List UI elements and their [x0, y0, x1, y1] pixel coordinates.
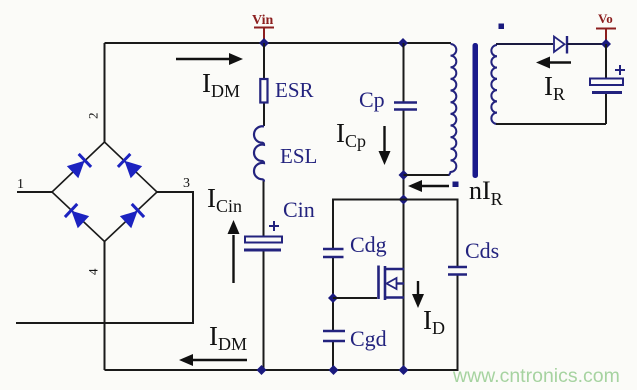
wire terminal 1 lead: [17, 191, 52, 193]
label nIR with arrow: [408, 176, 503, 209]
label Cgd: [350, 326, 387, 351]
pin label 3: [183, 176, 190, 191]
wire gate lead: [333, 297, 377, 299]
resistor ESR: [260, 79, 267, 103]
node dot gate junction: [328, 293, 338, 303]
wire output return (cap bottom to secondary bottom): [496, 123, 606, 125]
svg-text:Cds: Cds: [465, 238, 499, 263]
pin label 2 (rotated): [86, 113, 101, 120]
label ESR: [275, 78, 314, 102]
polarity dot secondary winding: [499, 24, 505, 30]
label IDM (top) with arrow: [176, 53, 243, 101]
svg-text:ESR: ESR: [275, 78, 314, 102]
node dot at top rail Cp branch: [398, 38, 408, 48]
svg-text:www.cntronics.com: www.cntronics.com: [452, 365, 620, 387]
diode D3 (bridge upper-right edge, pointing to terminal 2): [118, 154, 142, 178]
svg-text:ESL: ESL: [280, 144, 317, 168]
svg-text:Cin: Cin: [283, 197, 315, 222]
transistor Q1 MOSFET: [379, 266, 405, 301]
inductor primary winding: [449, 44, 457, 175]
diode D1 (bridge lower-left edge, pointing to terminal 1): [65, 204, 89, 228]
capacitor Cin (electrolytic, + top plate): [244, 221, 282, 250]
label Cdg: [350, 232, 387, 257]
capacitor Cgd: [323, 331, 345, 341]
label Cin: [283, 197, 315, 222]
node dot drain junction: [399, 195, 409, 205]
label ICp with arrow: [336, 118, 391, 165]
label IDM (bottom) with arrow: [179, 321, 247, 366]
wire Cin branch vertical (ESR to ESL to Cin to bottom rail): [263, 43, 266, 370]
svg-text:1: 1: [17, 177, 24, 192]
label ID with arrow: [412, 281, 445, 338]
wire output diode to Vo node: [567, 43, 606, 45]
node dot at Vin on top rail: [259, 38, 269, 48]
diode D4 (bridge lower-right edge, pointing to terminal 3): [120, 204, 144, 228]
svg-text:3: 3: [183, 176, 190, 191]
pin label 1: [17, 177, 24, 192]
capacitor Cds: [448, 267, 467, 275]
node dot MOSFET source at bottom rail: [399, 365, 409, 375]
wire top rail from bridge terminal 2 to transformer primary: [105, 42, 452, 44]
node dot Cin at bottom rail: [257, 365, 267, 375]
wire secondary top lead to output diode: [496, 43, 553, 45]
label IR with arrow: [536, 57, 571, 105]
node Vin (red terminal): [252, 13, 274, 42]
label ICin with arrow: [207, 183, 242, 283]
inductor secondary winding: [491, 45, 497, 124]
label ESL: [280, 144, 317, 168]
wire primary bottom lead: [404, 174, 450, 176]
wire terminal 3 lead right, down and left to AC input: [16, 192, 193, 323]
svg-text:Vo: Vo: [598, 11, 613, 26]
wire bottom rail: [105, 369, 458, 371]
svg-text:Cgd: Cgd: [350, 326, 387, 351]
label Cds: [465, 238, 499, 263]
node dot primary-bottom junction: [399, 170, 409, 180]
svg-text:2: 2: [86, 113, 101, 120]
pin label 4 (rotated): [86, 268, 101, 275]
wire drain node to Cds branch: [404, 200, 458, 372]
wire Vo node down to output capacitor: [605, 44, 607, 124]
transformer core: [473, 43, 479, 178]
node Vo (red terminal): [596, 11, 616, 43]
svg-text:Vin: Vin: [252, 13, 273, 28]
inductor ESL: [254, 126, 264, 181]
wire drain node to Cdg branch: [333, 200, 404, 371]
svg-text:4: 4: [86, 268, 101, 275]
svg-text:Cp: Cp: [359, 87, 385, 112]
wire left vertical from top rail down to bridge terminal 2: [104, 43, 106, 142]
svg-text:Cdg: Cdg: [350, 232, 387, 257]
bridge rectifier diamond outline: [52, 142, 157, 242]
node dot at Vo: [601, 39, 611, 49]
capacitor Cp: [394, 103, 417, 110]
node dot Cdg branch at bottom rail: [329, 365, 339, 375]
capacitor Cout (electrolytic, + top): [590, 65, 625, 93]
polarity dot primary winding: [453, 182, 459, 188]
diode D2 (bridge upper-left edge, pointing to terminal 2): [67, 154, 91, 178]
wire main drain vertical (Cp branch / MOSFET): [403, 43, 405, 370]
capacitor Cdg: [323, 249, 344, 257]
watermark: [452, 365, 620, 387]
label Cp: [359, 87, 385, 112]
diode D5 (output rectifier): [554, 36, 567, 54]
wire terminal 4 down to bottom rail: [104, 242, 106, 371]
